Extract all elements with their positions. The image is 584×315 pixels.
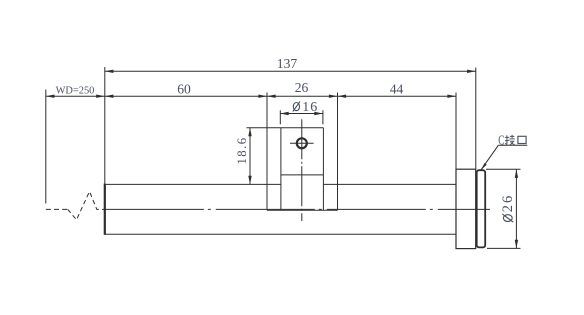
extension line x=337.5 (clamp right): [337, 93, 339, 185]
svg-text:26: 26: [500, 194, 516, 213]
dimension line 137: [105, 70, 476, 72]
extension line phi16 right: [322, 110, 324, 124]
svg-text:26: 26: [295, 80, 309, 95]
arrowheads 18.6: [248, 128, 251, 137]
block top edge: [281, 127, 324, 129]
block right edge: [322, 128, 324, 211]
extension line: object plane (WD reference): [45, 90, 47, 204]
extension line phi26 top: [486, 168, 521, 170]
block left edge: [280, 128, 282, 211]
arrowheads 137: [105, 70, 114, 73]
svg-text:C: C: [498, 134, 504, 148]
glyph jie (Chinese): [505, 135, 515, 145]
arrowheads phi16: [280, 112, 289, 115]
arrowheads WD=250: [46, 95, 55, 98]
dimension line phi16: [280, 113, 323, 115]
svg-text:60: 60: [177, 82, 191, 97]
barrel top edge (left of block): [105, 183, 281, 185]
arrowheads 60: [105, 95, 114, 98]
arrowheads 44: [338, 95, 347, 98]
arrowheads phi26: [515, 169, 518, 178]
text phi26 (rotated): [500, 194, 516, 222]
svg-text:16: 16: [302, 100, 318, 115]
flange rectangle: [456, 169, 476, 248]
extension line x=475.8 (flange right face): [475, 68, 477, 170]
glyph kou (Chinese): [518, 136, 526, 143]
leader line C-mount: [481, 145, 527, 169]
svg-text:18.6: 18.6: [235, 137, 249, 165]
dimension line WD=250 / 60 / 26 / 44 row: [46, 95, 456, 97]
axis dashes left of break: [46, 208, 68, 210]
svg-text:44: 44: [390, 82, 404, 97]
block joint line: [281, 174, 324, 176]
main axis centerline: [105, 208, 490, 210]
hole circle: [297, 138, 307, 148]
text phi16 symbol: [293, 102, 300, 112]
extension line x=267 (clamp left): [266, 93, 268, 185]
extension line phi16 left: [279, 110, 281, 124]
extension line + barrel front face x=104.8: [104, 67, 106, 184]
axis break (zigzag): [68, 192, 105, 220]
dimension line phi26: [515, 169, 517, 248]
barrel front face (left end, thick): [104, 184, 106, 235]
svg-text:WD=250: WD=250: [56, 85, 95, 96]
clamp bottom edge: [267, 209, 338, 211]
svg-text:137: 137: [277, 56, 298, 71]
barrel top edge (right of block): [323, 183, 456, 185]
extension line 18.6 top: [247, 127, 281, 129]
arrowhead leader: [481, 163, 486, 170]
clamp left edge: [266, 184, 268, 210]
extension line phi26 bottom: [487, 247, 521, 249]
arrowheads 26: [267, 95, 276, 98]
hole horizontal centerline: [290, 142, 314, 144]
clamp right edge: [337, 184, 339, 210]
dimension line 18.6: [249, 128, 251, 185]
C-mount ring (thin strip): [477, 170, 486, 247]
barrel bottom edge: [105, 233, 456, 235]
hole vertical centerline: [301, 119, 303, 221]
extension line x=456 (flange left face): [455, 93, 457, 170]
